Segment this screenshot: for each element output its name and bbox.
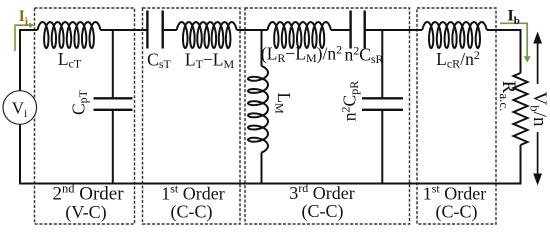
- current arrow Ib: [500, 23, 527, 56]
- svg-text:LT−LM: LT−LM: [185, 50, 235, 72]
- svg-text:1st Order: 1st Order: [423, 181, 487, 203]
- wire CpT branch upper: [112, 30, 114, 98]
- svg-text:3rd Order: 3rd Order: [289, 181, 354, 203]
- wire top segment 2: [101, 29, 148, 31]
- wire top segment 3: [163, 29, 177, 31]
- wire CpT branch lower: [112, 110, 114, 184]
- svg-text:CpT: CpT: [69, 89, 91, 115]
- svg-text:LcT: LcT: [58, 49, 82, 71]
- svg-text:(C-C): (C-C): [171, 202, 213, 223]
- inductor (LR-LM)/n2: [268, 22, 331, 48]
- section box 3 (3rd Order C-C): [245, 8, 410, 224]
- section box 4 (1st Order C-C): [417, 8, 496, 224]
- wire LM branch lower: [261, 153, 263, 184]
- wire right vertical lower: [520, 145, 522, 184]
- wire right vertical upper: [520, 30, 522, 73]
- inductor LcT: [38, 22, 101, 48]
- svg-text:2nd Order: 2nd Order: [52, 181, 124, 204]
- current arrow Ii: [15, 25, 30, 51]
- wire top segment 1: [19, 29, 37, 31]
- wire LM branch upper: [261, 30, 263, 66]
- svg-text:n2CpR: n2CpR: [339, 81, 362, 121]
- wire n2CpR branch upper: [381, 30, 383, 98]
- voltage source Vi: [3, 91, 37, 125]
- svg-text:(C-C): (C-C): [302, 201, 344, 222]
- svg-text:Ib: Ib: [508, 7, 520, 27]
- wire left vertical: [19, 30, 21, 184]
- capacitor n2CpR: [362, 97, 403, 99]
- svg-text:1st Order: 1st Order: [161, 181, 225, 203]
- inductor LT-LM: [177, 22, 237, 48]
- wire top segment 7: [487, 29, 522, 31]
- svg-text:(C-C): (C-C): [436, 202, 478, 223]
- svg-text:Vb/n: Vb/n: [528, 91, 550, 127]
- capacitor CpT: [94, 97, 133, 99]
- inductor LM: [248, 66, 268, 153]
- svg-text:CsT: CsT: [147, 50, 171, 72]
- resistor Rac: [514, 73, 528, 145]
- section box 2 (1st Order C-C): [143, 8, 241, 224]
- capacitor n2CsR: [349, 11, 351, 49]
- wire top segment 5: [331, 29, 351, 31]
- capacitor CsT: [146, 11, 148, 49]
- svg-text:Ra.c.: Ra.c.: [497, 81, 519, 112]
- svg-text:Ii: Ii: [19, 8, 28, 28]
- svg-text:LcR/n2: LcR/n2: [436, 48, 480, 71]
- svg-text:(LR−LM)/n2: (LR−LM)/n2: [261, 43, 342, 66]
- wire top segment 6: [365, 29, 423, 31]
- voltage arrow Vb/n: [537, 42, 539, 84]
- svg-text:LM: LM: [273, 92, 295, 114]
- wire top segment 4: [237, 29, 268, 31]
- inductor LcR/n2: [422, 22, 487, 48]
- svg-text:(V-C): (V-C): [65, 202, 106, 223]
- section box 1 (2nd Order V-C): [35, 8, 135, 224]
- wire bottom: [19, 183, 521, 185]
- svg-text:n2CsR: n2CsR: [344, 44, 383, 67]
- wire n2CpR branch lower: [381, 110, 383, 184]
